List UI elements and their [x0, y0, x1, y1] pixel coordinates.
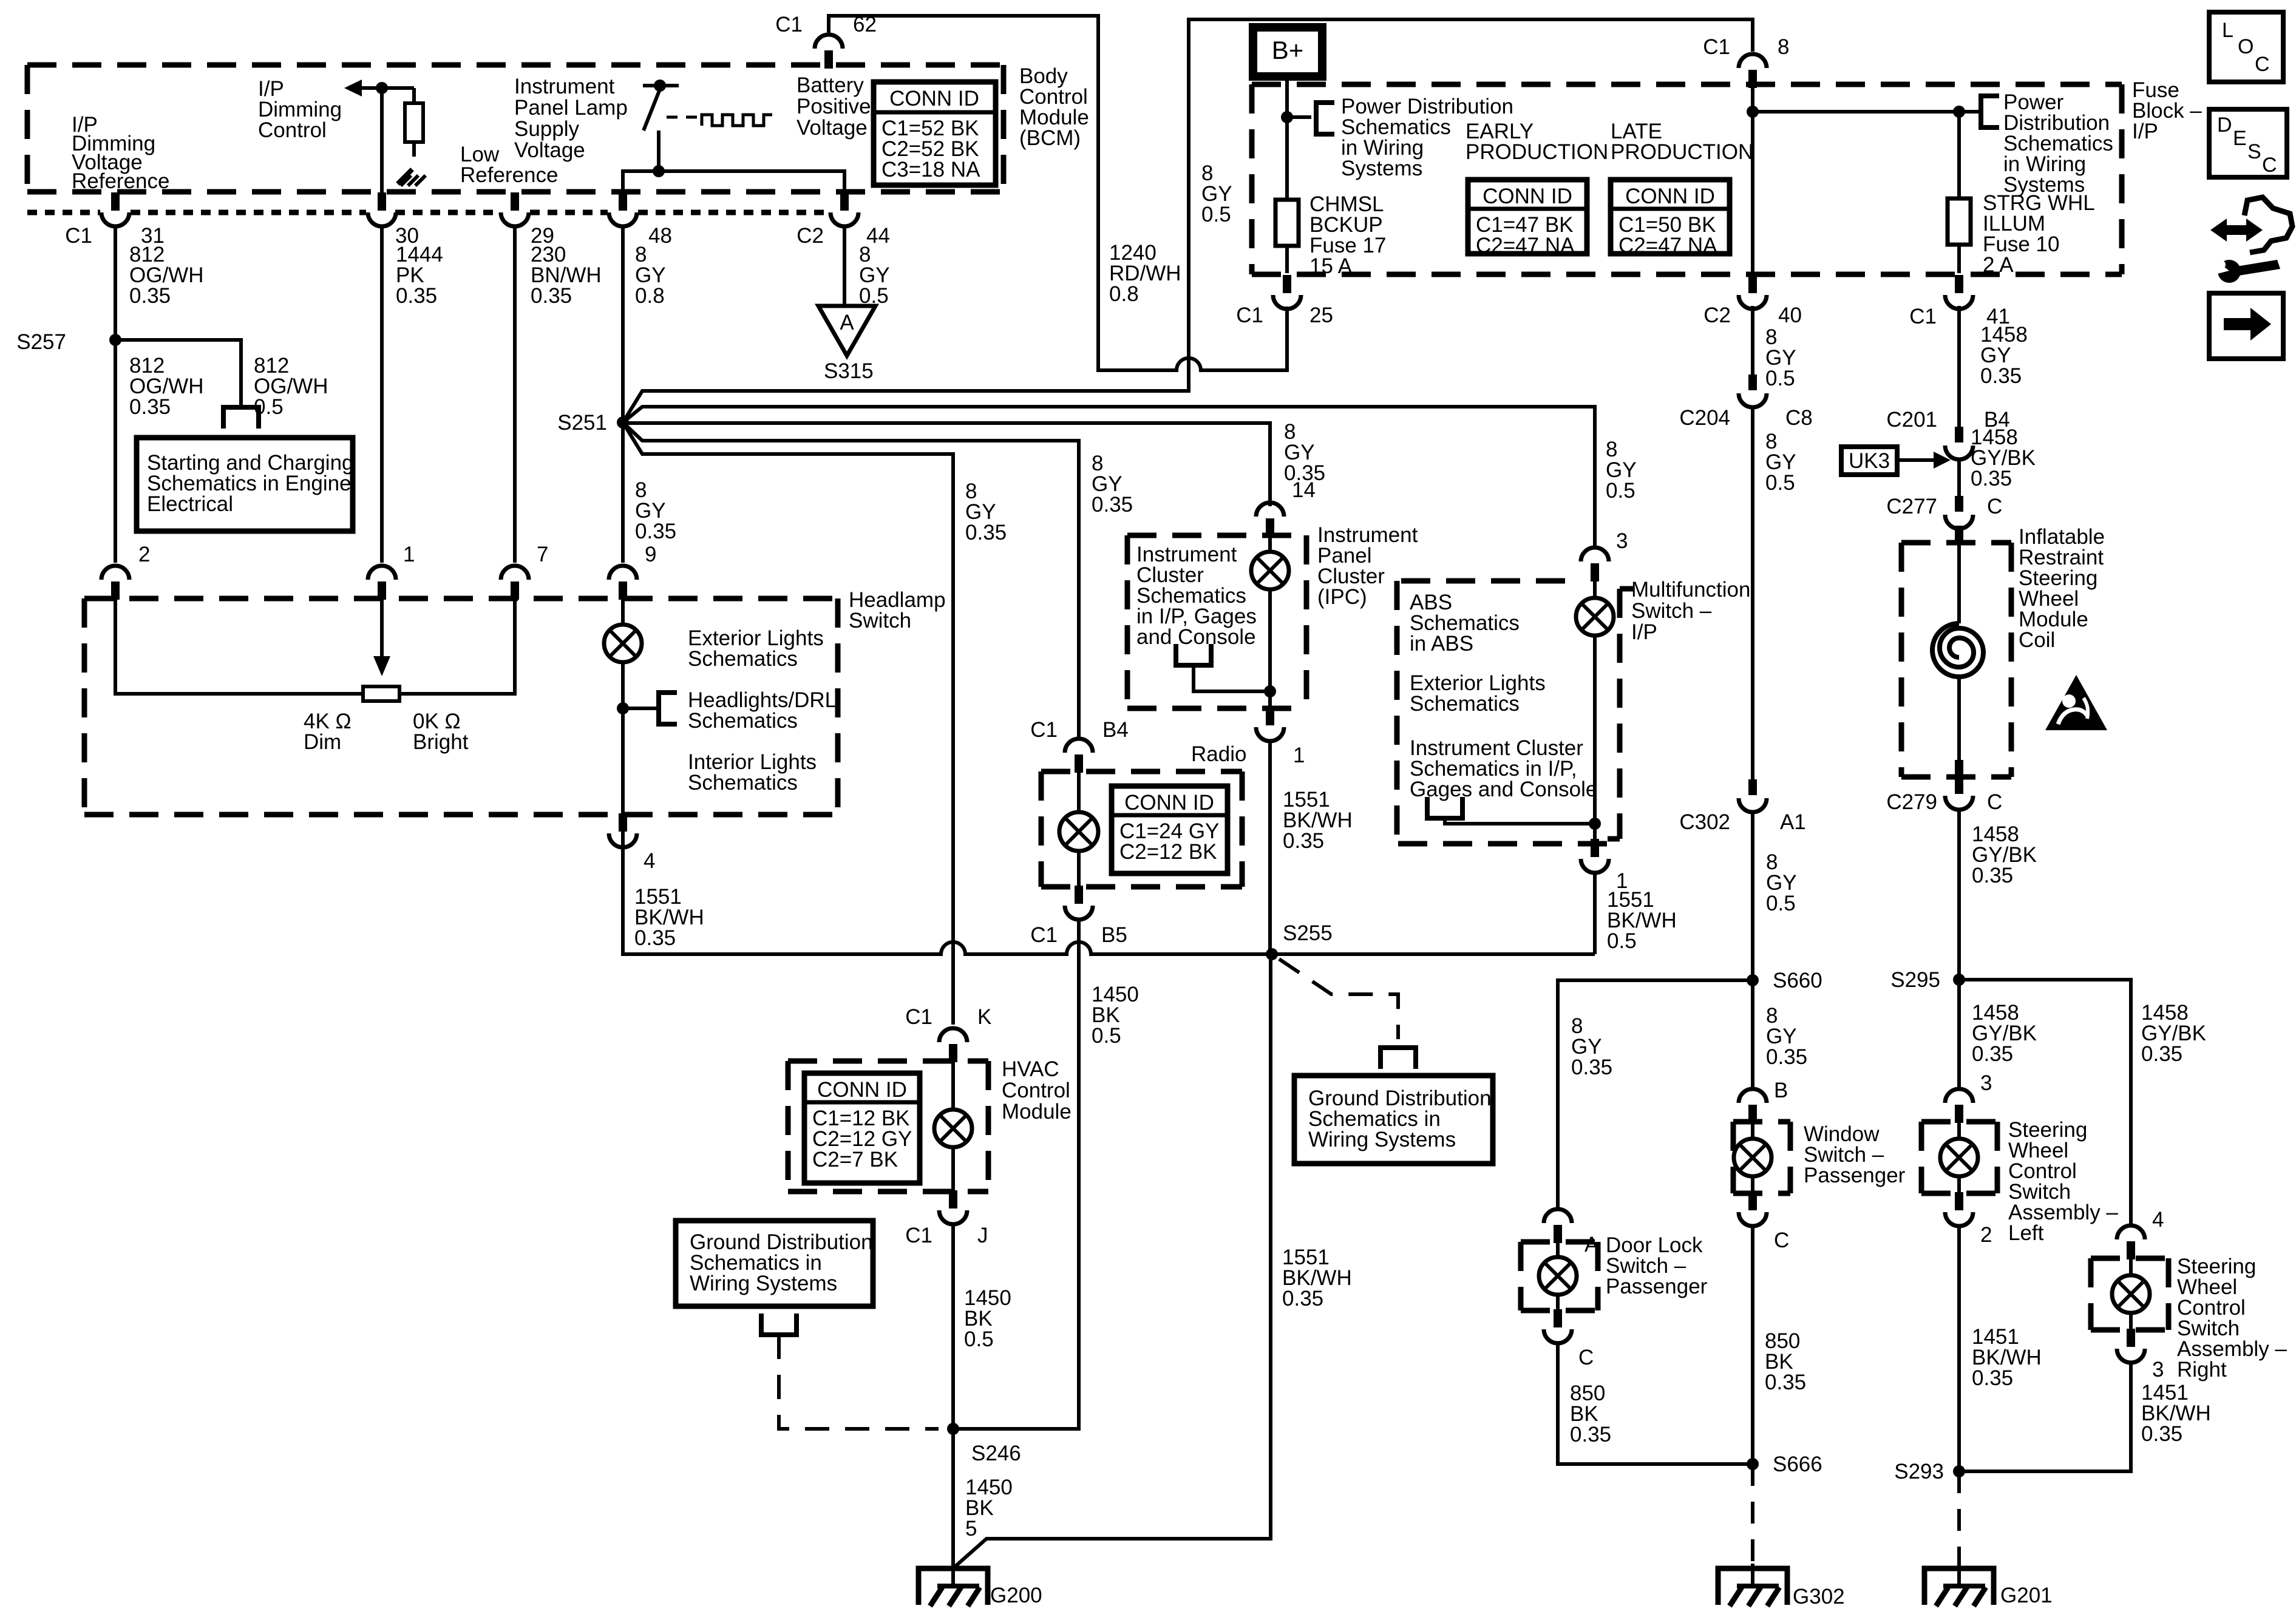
svg-text:I/P: I/P — [2132, 120, 2158, 143]
svg-text:0.35: 0.35 — [1570, 1423, 1611, 1446]
svg-text:Coil: Coil — [2019, 628, 2055, 652]
connector C277 / C — [1886, 495, 2002, 529]
svg-text:C1: C1 — [1030, 718, 1058, 742]
svg-text:PRODUCTION: PRODUCTION — [1466, 140, 1608, 164]
wire: multifunction to S255 line — [1593, 873, 1597, 954]
svg-text:2: 2 — [1980, 1223, 1992, 1247]
label: 1450 BK 5 — [965, 1476, 1013, 1541]
label: Radio — [1191, 742, 1246, 766]
svg-text:E: E — [2233, 127, 2247, 150]
label: 1451 BK/WH 0.35 (right) — [2141, 1381, 2211, 1446]
svg-text:Passenger: Passenger — [1804, 1164, 1906, 1187]
svg-text:0.35: 0.35 — [1765, 1371, 1806, 1394]
wire: C1-8 feed inside fuse block — [1751, 84, 1754, 273]
svg-text:25: 25 — [1309, 303, 1333, 327]
connector pin C (door lock switch) — [1544, 1309, 1594, 1369]
label: CHMSL BCKUP Fuse 17 15 A — [1309, 192, 1386, 278]
svg-text:Control: Control — [1002, 1079, 1070, 1102]
connector pin C (window switch) — [1739, 1192, 1789, 1252]
wire: to STRG WHL ILLUM fuse — [1753, 110, 1978, 114]
svg-text:CONN ID: CONN ID — [1483, 185, 1572, 208]
svg-text:0.35: 0.35 — [129, 395, 171, 419]
component box: Steering Wheel Control Switch Assembly - Right (dashed) — [2091, 1258, 2169, 1330]
svg-text:B5: B5 — [1101, 923, 1127, 947]
svg-text:C204: C204 — [1679, 406, 1730, 430]
label: Instrument Cluster Schematics (IPC internal) — [1136, 543, 1257, 649]
switch: instrument panel lamp supply (PWM controlled) — [643, 80, 679, 171]
node: lamp supply junction — [653, 165, 665, 177]
wire: 1551 bus to S255 (hops over HVAC and radio wires) — [623, 829, 1595, 954]
wire: radio B5 down to S246 junction — [957, 920, 1079, 1429]
svg-text:S666: S666 — [1773, 1453, 1822, 1476]
connector pin 30 — [368, 192, 419, 248]
fuse: STRG WHL ILLUM Fuse 10 2A — [1948, 112, 1971, 273]
svg-text:Schematics: Schematics — [688, 771, 798, 795]
reference bracket (power distribution right) — [1981, 93, 1999, 130]
power symbol B+ — [1253, 27, 1322, 76]
svg-text:I/P: I/P — [1631, 620, 1657, 644]
svg-text:0.35: 0.35 — [965, 521, 1007, 544]
label: LATE PRODUCTION — [1611, 120, 1753, 164]
connector C1 / K (HVAC) — [905, 1005, 991, 1062]
label: Steering Wheel Control Switch Assembly - Left — [2008, 1118, 2118, 1245]
label: 1551 BK/WH 0.35 (headlamp sw) — [634, 885, 704, 950]
label: Fuse Block - I/P — [2132, 78, 2202, 143]
wire: 8 GY from pin 48 to S251 — [621, 226, 625, 422]
label: Steering Wheel Control Switch Assembly - Right — [2177, 1255, 2287, 1381]
splice S660 — [1747, 969, 1822, 992]
splice S666 — [1747, 1453, 1822, 1476]
lamp: window switch illumination — [1734, 1120, 1771, 1195]
label: 0K ohm Bright — [413, 710, 469, 754]
connector pin 1 (IPC bottom) — [1256, 707, 1305, 767]
svg-text:Schematics: Schematics — [688, 647, 798, 671]
wire: 812 OG/WH from C1-31 to S257 — [114, 226, 117, 340]
svg-text:in ABS: in ABS — [1410, 632, 1473, 656]
lamp: radio illumination — [1059, 771, 1098, 887]
connector C1-62 (BCM battery positive) — [775, 13, 877, 69]
module box: HVAC Control Module (dashed) — [788, 1061, 988, 1192]
svg-text:3: 3 — [2152, 1358, 2164, 1381]
svg-text:B+: B+ — [1272, 36, 1304, 64]
label: 8 GY 0.5 (pin 44 wire) — [859, 243, 890, 308]
svg-text:0.8: 0.8 — [635, 284, 665, 308]
module box: Fuse Block - I/P, dashed outline — [1252, 84, 2122, 274]
connector pin 1 (multifunction bottom) — [1581, 839, 1628, 893]
svg-text:Positive: Positive — [796, 95, 871, 118]
svg-text:C2=12 BK: C2=12 BK — [1119, 840, 1217, 864]
reference bracket (ground distribution left) — [759, 1314, 799, 1335]
svg-text:S255: S255 — [1283, 921, 1333, 945]
connector pin 4 (right switch) — [2117, 1208, 2164, 1259]
reference link: S255 to ground distribution (dashed) — [1279, 959, 1398, 1039]
svg-text:C8: C8 — [1785, 406, 1813, 430]
component box: Steering Wheel Control Switch Assembly - Left (dashed) — [1921, 1122, 1997, 1193]
wire: S251 down to headlamp switch pin 9 — [621, 422, 625, 563]
svg-text:0.35: 0.35 — [1972, 1042, 2013, 1066]
svg-text:Control: Control — [258, 118, 327, 142]
label: 8 GY 0.5 (multifunction feed) — [1606, 438, 1637, 503]
svg-text:S293: S293 — [1894, 1460, 1944, 1483]
svg-text:0.5: 0.5 — [1765, 471, 1795, 495]
svg-text:0.35: 0.35 — [1972, 864, 2013, 887]
svg-text:2: 2 — [138, 543, 150, 566]
svg-text:0.5: 0.5 — [1201, 203, 1231, 226]
arrow: dimmer wiper from pin 1 — [373, 598, 390, 676]
label: 8 GY 0.5 (below C302) — [1766, 850, 1797, 915]
svg-text:C201: C201 — [1886, 408, 1937, 432]
connector C1 pin 41 — [1909, 275, 2010, 328]
wire: C277 into coil module — [1955, 526, 1963, 544]
reference box: Ground Distribution Schematics in Wiring Systems (left) — [676, 1221, 873, 1306]
svg-text:C2=7 BK: C2=7 BK — [812, 1148, 898, 1171]
svg-text:0.35: 0.35 — [129, 284, 171, 308]
svg-text:Left: Left — [2008, 1221, 2044, 1245]
svg-text:7: 7 — [537, 543, 548, 566]
icon: service tool (double arrow, outline, wrench) — [2208, 197, 2292, 283]
svg-text:J: J — [977, 1224, 988, 1247]
svg-text:Wiring Systems: Wiring Systems — [1308, 1128, 1456, 1151]
svg-text:Bright: Bright — [413, 730, 469, 754]
svg-text:4: 4 — [2152, 1208, 2164, 1232]
svg-text:C277: C277 — [1886, 495, 1937, 518]
wire: C201 to C277 — [1957, 459, 1961, 496]
ground G302 — [1718, 1564, 1845, 1609]
label: STRG WHL ILLUM Fuse 10 2 A — [1983, 191, 2095, 277]
reference bracket (IPC cluster schematics) — [1173, 644, 1214, 665]
svg-text:D: D — [2217, 114, 2232, 137]
label: 1458 GY/BK 0.35 (below C201) — [1971, 425, 2036, 490]
wire: C302 to S660 — [1751, 812, 1754, 980]
svg-text:0.35: 0.35 — [2141, 1422, 2182, 1446]
splice S246 — [947, 1423, 1021, 1465]
fuse: CHMSL BCKUP Fuse 17 15A — [1275, 200, 1299, 273]
wire: C1-41 to C201 — [1957, 306, 1961, 427]
connector C201 / B4 — [1886, 408, 2009, 459]
splice S251 — [557, 411, 629, 435]
svg-text:Schematics: Schematics — [1410, 692, 1520, 716]
svg-text:CONN ID: CONN ID — [889, 87, 979, 110]
svg-text:C279: C279 — [1886, 790, 1937, 814]
svg-text:0.35: 0.35 — [396, 284, 437, 308]
svg-text:B4: B4 — [1102, 718, 1129, 742]
svg-text:1: 1 — [1293, 744, 1305, 767]
svg-text:C2: C2 — [1703, 303, 1731, 327]
wire: junction to power distribution reference — [1287, 115, 1311, 119]
node: B+ junction — [1281, 111, 1293, 123]
svg-text:C: C — [1987, 790, 2002, 814]
wire: S255 to G200 (1551 BK/WH) — [955, 954, 1271, 1567]
icon: forward arrow box — [2209, 293, 2283, 359]
svg-text:C: C — [2262, 154, 2277, 177]
svg-text:S257: S257 — [16, 330, 66, 354]
wire: C279 to S295 — [1957, 810, 1961, 980]
svg-text:Reference: Reference — [460, 163, 558, 187]
svg-text:B: B — [1774, 1079, 1788, 1102]
svg-text:Gages and Console: Gages and Console — [1410, 778, 1597, 801]
svg-text:C1: C1 — [905, 1005, 932, 1029]
label: I/P Dimming Voltage Reference — [72, 113, 169, 193]
svg-text:C1: C1 — [1703, 35, 1730, 59]
label: Instrument Cluster Schematics (ABS box) — [1410, 736, 1597, 801]
svg-text:(BCM): (BCM) — [1019, 126, 1081, 150]
svg-text:0.35: 0.35 — [1980, 364, 2022, 388]
label: Instrument Panel Cluster (IPC) — [1317, 523, 1418, 609]
splice pack S315 (triangle A) — [818, 306, 875, 383]
node: fuse block junction (left) — [1747, 106, 1759, 118]
svg-text:C2: C2 — [796, 224, 824, 248]
reference bracket (power distribution left) — [1316, 100, 1334, 137]
icon: airbag warning triangle — [2045, 675, 2107, 730]
svg-text:Instrument: Instrument — [514, 75, 615, 98]
svg-text:Radio: Radio — [1191, 742, 1246, 766]
svg-text:3: 3 — [1616, 529, 1628, 553]
splice S257 — [16, 330, 121, 354]
svg-text:(IPC): (IPC) — [1317, 585, 1367, 609]
wire: right switch to S293 — [1959, 1363, 2131, 1471]
label: 1551 BK/WH 0.35 (IPC) — [1283, 788, 1353, 853]
label: Door Lock Switch - Passenger — [1606, 1233, 1708, 1298]
svg-text:Schematics: Schematics — [688, 709, 798, 733]
svg-text:C1: C1 — [1909, 305, 1937, 328]
label: 1551 BK/WH 0.5 — [1607, 888, 1677, 953]
component box: Multifunction Switch I/P (dashed, left edge) — [1608, 589, 1633, 839]
connector pin 4 (headlamp sw bottom) — [609, 813, 655, 873]
svg-text:Passenger: Passenger — [1606, 1275, 1708, 1298]
label: 1450 BK 0.5 (HVAC ground) — [964, 1286, 1011, 1351]
svg-text:0.35: 0.35 — [1092, 493, 1133, 517]
wire: 1240 RD/WH from BCM C1-62 to CHMSL fuse — [829, 16, 1287, 370]
ground G201 — [1924, 1564, 2053, 1607]
svg-text:1: 1 — [403, 543, 415, 566]
symbol: PWM dashed link and square wave — [667, 115, 772, 126]
wire: 230 BN/WH from pin 29 to headlamp switch pin 7 — [513, 226, 517, 563]
connector pin 3 (right switch) — [2117, 1329, 2164, 1381]
label: 8 GY 0.5 (below C204) — [1765, 430, 1796, 495]
label: 850 BK 0.35 (window) — [1765, 1329, 1806, 1394]
connector pin 29 — [501, 192, 554, 248]
label: 1450 BK 0.5 (radio ground) — [1092, 983, 1139, 1048]
lamp: IPC illumination — [1251, 535, 1289, 708]
component box: Window Switch - Passenger (dashed) — [1733, 1122, 1790, 1193]
connector pin 3 (left switch) — [1945, 1071, 1992, 1123]
node: headlamp lamp junction — [617, 702, 629, 714]
svg-text:0.35: 0.35 — [1766, 1045, 1807, 1069]
component box: Radio (dashed) — [1041, 771, 1242, 887]
svg-text:C3=18 NA: C3=18 NA — [881, 158, 980, 181]
svg-text:C: C — [2255, 53, 2270, 76]
svg-text:Multifunction: Multifunction — [1631, 578, 1750, 602]
label: 1458 GY/BK 0.35 (below C279) — [1972, 822, 2037, 887]
reference box: Starting and Charging Schematics in Engine Electrical — [137, 438, 354, 531]
label: Headlamp Switch — [849, 588, 946, 632]
svg-text:C: C — [1578, 1346, 1594, 1369]
connector pin 2 (left switch) — [1945, 1192, 1992, 1247]
label: Exterior Lights Schematics — [688, 626, 824, 671]
table: early production CONN ID — [1468, 180, 1587, 257]
svg-text:C1: C1 — [905, 1224, 932, 1247]
svg-text:G200: G200 — [990, 1584, 1042, 1607]
svg-text:0.5: 0.5 — [1765, 367, 1795, 390]
connector C279 / C — [1886, 776, 2002, 814]
label: 8 GY 0.5 (below C2-40) — [1765, 325, 1796, 390]
connector pin 7 (headlamp sw) — [501, 543, 548, 600]
svg-text:0.35: 0.35 — [1571, 1056, 1612, 1079]
svg-text:Wiring Systems: Wiring Systems — [690, 1272, 837, 1295]
svg-text:CONN ID: CONN ID — [1625, 185, 1715, 208]
connector pin A (door lock switch) — [1544, 1209, 1599, 1256]
wire: window switch to S666 — [1751, 1226, 1754, 1464]
label: 1458 GY/BK 0.35 (right switch) — [2141, 1001, 2206, 1066]
label: 8 GY 0.35 (IPC feed) — [1284, 420, 1325, 485]
svg-text:CONN ID: CONN ID — [1124, 791, 1214, 815]
label: 8 GY 0.35 (window switch) — [1766, 1004, 1807, 1069]
label: 812 OG/WH 0.5 (branch) — [254, 354, 328, 419]
label: Multifunction Switch - I/P — [1631, 578, 1750, 644]
arrow: I/P dimming control output (points left) — [344, 80, 414, 97]
reference box: ABS schematics (dashed) — [1397, 581, 1615, 844]
label: Instrument Panel Lamp Supply Voltage — [514, 75, 628, 162]
svg-text:9: 9 — [645, 543, 656, 566]
wire: S295 to left control switch — [1957, 980, 1961, 1090]
svg-text:L: L — [2222, 19, 2233, 42]
connector pin 2 (headlamp sw) — [101, 543, 150, 600]
svg-text:0.35: 0.35 — [2141, 1042, 2182, 1066]
wire: S246 to G200 — [951, 1429, 955, 1587]
connector pin B (window switch) — [1739, 1079, 1788, 1123]
label: 8 GY 0.8 — [635, 243, 666, 308]
svg-text:Module: Module — [1002, 1100, 1072, 1124]
module box: Instrument Panel Cluster IPC (dashed) — [1127, 535, 1306, 708]
svg-text:0.35: 0.35 — [1971, 467, 2012, 490]
svg-text:Switch –: Switch – — [1631, 599, 1712, 623]
label: 850 BK 0.35 (door lock) — [1570, 1381, 1611, 1446]
lamp: door lock switch illumination — [1539, 1241, 1577, 1312]
svg-text:PRODUCTION: PRODUCTION — [1611, 140, 1753, 164]
svg-text:Right: Right — [2177, 1358, 2227, 1381]
lamp: headlamp switch illumination — [604, 598, 642, 815]
wire: S666 to G302 (dashed) — [1751, 1464, 1754, 1565]
label: EARLY PRODUCTION — [1466, 120, 1608, 164]
wire: S295 branch to right control switch — [1959, 980, 2131, 1227]
label: 8 GY 0.5 (B+ riser) — [1201, 161, 1232, 226]
svg-text:48: 48 — [648, 224, 672, 248]
connector pin 9 (headlamp sw) — [609, 543, 656, 600]
label: 1451 BK/WH 0.35 (left) — [1972, 1325, 2042, 1390]
wire: IPC pin 1 to S255 — [1268, 741, 1272, 954]
wire: S660 down to window switch — [1751, 980, 1754, 1090]
reference link: bracket to S246 (dashed) — [779, 1335, 939, 1429]
wire: S251 to multifunction switch (8 GY 0.5) — [623, 407, 1595, 547]
wire: left switch to S293 — [1957, 1226, 1961, 1471]
svg-text:0.35: 0.35 — [1282, 1287, 1323, 1310]
wire: bracket to IPC lamp wire — [1194, 665, 1270, 691]
reference bracket (ground distribution right) — [1378, 1048, 1418, 1069]
svg-text:S: S — [2247, 140, 2261, 163]
wire: S251 to fuse block C1-8 (B+ feed) — [623, 19, 1753, 422]
table: late production CONN ID — [1611, 180, 1730, 257]
resistor R in BCM (pull-down) — [405, 88, 423, 157]
connector C2 pin 44 — [796, 192, 890, 248]
svg-text:C1: C1 — [1236, 303, 1263, 327]
connector C1 pin 8 (fuse block top) — [1703, 35, 1789, 88]
svg-text:S246: S246 — [971, 1442, 1021, 1465]
connector C1 pin 31 — [65, 192, 165, 248]
svg-text:8: 8 — [1778, 35, 1789, 59]
svg-text:Battery: Battery — [796, 73, 864, 97]
wire: 8 GY 0.5 from C2-44 down to splice pack — [843, 226, 846, 307]
connector C1 / B4 (radio) — [1030, 718, 1129, 773]
wire: B+ into fuse block — [1285, 76, 1289, 200]
wire: S660 branch to door lock switch — [1558, 980, 1753, 1210]
label: Battery Positive Voltage — [796, 73, 871, 140]
svg-text:Voltage: Voltage — [796, 116, 868, 140]
lamp: left control switch illumination — [1940, 1120, 1978, 1195]
svg-text:A: A — [840, 311, 854, 334]
connector C1 pin 25 — [1236, 275, 1333, 327]
svg-text:0.5: 0.5 — [1092, 1024, 1121, 1048]
table: HVAC CONN ID — [804, 1073, 920, 1183]
svg-text:Switch: Switch — [849, 609, 911, 632]
wire: junction to headlights/DRL reference — [623, 707, 656, 710]
reference bracket (starting and charging) — [221, 407, 261, 429]
lamp: HVAC illumination — [934, 1061, 972, 1192]
label: Power Distribution Schematics in Wiring Systems (right) — [2003, 90, 2113, 197]
label: I/P Dimming Control — [258, 77, 342, 142]
svg-text:Electrical: Electrical — [147, 492, 233, 516]
label: 8 GY 0.35 (door lock) — [1571, 1014, 1612, 1079]
connector C204 / C8 — [1679, 375, 1812, 430]
svg-text:0.5: 0.5 — [964, 1327, 994, 1351]
connector pin 1 (headlamp sw) — [368, 543, 415, 600]
svg-text:Panel Lamp: Panel Lamp — [514, 96, 628, 120]
splice S295 — [1890, 968, 1965, 992]
label: Body Control Module (BCM) — [1019, 64, 1089, 150]
wire: S293 to G201 (dashed) — [1957, 1471, 1961, 1565]
svg-text:G201: G201 — [2000, 1584, 2053, 1607]
label: 812 OG/WH 0.35 (below S257) — [129, 354, 203, 419]
wire: S257 down to headlamp switch pin 2 — [114, 340, 117, 563]
label: 8 GY 0.35 (headlamp sw feed) — [635, 478, 676, 543]
potentiometer: dimmer rheostat — [115, 598, 515, 701]
svg-text:C: C — [1774, 1229, 1789, 1252]
svg-text:C: C — [1987, 495, 2002, 518]
label: 1551 BK/WH 0.35 (to G200) — [1282, 1246, 1352, 1310]
svg-text:0.5: 0.5 — [1607, 929, 1637, 953]
reference box: Ground Distribution Schematics in Wiring Systems (right) — [1294, 1076, 1493, 1164]
component box: Door Lock Switch - Passenger (dashed) — [1521, 1242, 1598, 1310]
svg-text:C2=47 NA: C2=47 NA — [1476, 234, 1575, 257]
connector pin 14 (IPC) — [1256, 478, 1316, 537]
svg-text:Reference: Reference — [72, 169, 169, 193]
wire: C204 to C302 — [1751, 407, 1754, 779]
label: Window Switch - Passenger — [1804, 1122, 1906, 1187]
svg-text:S315: S315 — [824, 359, 874, 383]
label: 1458 GY/BK 0.35 (left switch) — [1972, 1001, 2037, 1066]
label: 4K ohm Dim — [304, 710, 352, 754]
callout UK3 option box — [1841, 447, 1951, 475]
svg-text:S295: S295 — [1890, 968, 1940, 992]
wire: 1444 PK from pin 30 to headlamp switch pin 1 — [380, 226, 384, 563]
reference bracket (instrument cluster) — [1425, 797, 1465, 818]
label: Low Reference — [460, 143, 558, 187]
svg-text:0.35: 0.35 — [531, 284, 572, 308]
ground G200 — [919, 1564, 1042, 1607]
table: BCM CONN ID — [874, 82, 996, 185]
svg-text:K: K — [977, 1005, 991, 1029]
svg-text:0.35: 0.35 — [635, 520, 676, 543]
connector C1 / B5 (radio bottom) — [1030, 886, 1127, 947]
